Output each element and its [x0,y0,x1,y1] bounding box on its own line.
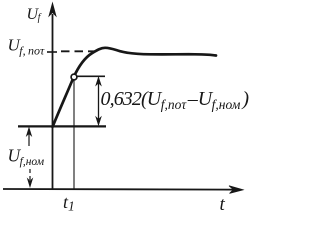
U_f,ном level reference line [18,125,106,127]
0.632 dimension double arrow [96,77,101,125]
t1 dropline [73,81,75,191]
response curve [53,48,217,127]
x-axis (t axis) [3,186,243,194]
svg-text:t: t [220,194,226,215]
U_f,ном dimension arrow (lower, pointing down to t axis) [27,169,32,187]
dashed line at U_f,пот level [61,50,96,52]
0.632-level reference line [74,75,105,77]
U_f,ном dimension arrow (upper, pointing up to ном line) [26,128,31,147]
tick on y-axis at U_f,пот level [47,51,57,53]
point marker (open circle) at 0.632 level [71,74,77,80]
y-axis (Uf axis) [49,3,56,189]
